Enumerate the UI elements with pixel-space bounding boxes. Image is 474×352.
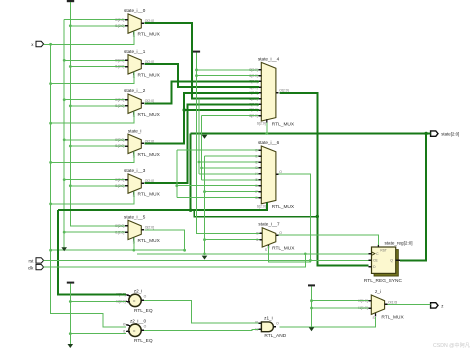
wire z2_i__0 out to AND I1 [144,329,259,330]
wire I1 feed vertical x=70.3 [69,2,125,226]
wire S run state_i__1 y=83.6 [49,72,134,85]
mux state_i__6 (RTL_MUX wide) [255,140,295,210]
svg-text:x: x [31,42,34,47]
wire state_i out bus [144,93,259,144]
svg-text:state_i__3: state_i__3 [124,168,146,173]
register state_reg[2:0] (RTL_REG_SYNC) [364,241,413,284]
wire state_i__6 I6 row [177,185,259,187]
svg-text:state_i__2: state_i__2 [124,88,146,93]
wire I0 feed row3 [64,99,125,101]
wire state_i__7 out to RST [279,235,379,245]
wire state_i__6 I5 feed [199,173,259,175]
svg-text:RTL_EQ: RTL_EQ [134,338,153,344]
ground bar (const for state_i__4) [193,51,200,53]
wire state_i__4 S stub to state bus [265,123,268,135]
wire z_i I0 feed [312,300,369,302]
svg-text:I1: I1 [123,329,126,333]
svg-text:O: O [144,324,147,328]
svg-text:z_i: z_i [375,289,381,294]
wire z_i I1 feed [312,307,369,309]
wire state_i__6 I0/I8 feed x=176.8 [175,150,178,197]
mux state_i__1 (RTL_MUX) [115,49,161,79]
svg-text:state_i__7: state_i__7 [258,222,280,227]
wire state_i__6 I1/I7 feed x=204.5 [203,156,259,255]
svg-text:O: O [279,170,282,174]
svg-text:RTL_MUX: RTL_MUX [138,112,161,118]
wire state_i__6 I8 row [177,197,259,199]
wire rst to CE [44,259,369,261]
svg-text:state_reg[2:0]: state_reg[2:0] [384,241,412,246]
wire AND out to z_i S [279,317,375,327]
svg-text:Q: Q [390,259,393,263]
wire jog run y=216.5 [194,210,319,218]
wire I1 feed row3 [70,105,125,107]
output port state[2:0] [431,131,460,137]
svg-text:RTL_MUX: RTL_MUX [381,314,404,320]
wire z2_i__0 I1 feed [70,333,126,335]
wire state_i__4 I0 feed [197,69,259,71]
wire state_i__4 I8 feed x=201.5 [202,115,259,117]
wire I1 feed row4 [70,145,125,147]
svg-text:CSDN @中阿凡: CSDN @中阿凡 [433,341,471,349]
svg-text:z1_i: z1_i [264,316,272,321]
wire I0 feed vertical x=64.2 [63,20,66,248]
svg-text:S[2:0]: S[2:0] [257,204,266,208]
svg-text:S[2:0]: S[2:0] [257,122,266,126]
mux state_i__0 (RTL_MUX) [115,8,161,38]
svg-text:I0: I0 [123,323,126,327]
wire z_i out to z port [387,303,430,305]
wire state_i__4 out to reg D [280,93,369,266]
wire state bus vertical to Q [400,134,426,261]
wire state_i__4 I1 feed [195,74,258,77]
wire x net vertical x=50.6 [51,44,127,327]
wire S run state_i__3 y=203.9 [49,191,134,205]
const bar for z_i [308,284,315,286]
net arrow below state bus [202,135,208,139]
svg-text:O: O [276,322,279,326]
wire I0 feed row1 [64,19,125,21]
svg-text:rst: rst [29,259,35,264]
wire state bus main run [191,133,427,135]
wire state bus to port stub [424,132,430,135]
svg-text:RTL_AND: RTL_AND [264,333,286,339]
wire I0 feed row2 [64,59,125,61]
svg-text:O: O [279,231,282,235]
svg-text:O: O [144,294,147,298]
power bar (top const) [67,0,74,2]
mux state_i__2 (RTL_MUX) [115,88,161,118]
wire I1 feed row5 [70,185,125,187]
mux state_i__7 (RTL_MUX) [256,222,295,252]
svg-text:S: S [265,248,268,252]
wire clk to C [44,253,369,268]
mux z_i (RTL_MUX) [358,289,404,320]
wire I0 feed row5 [64,179,125,181]
svg-text:CE: CE [373,259,378,263]
wire state_i__6 I0 row [177,149,259,151]
svg-text:RTL_MUX: RTL_MUX [138,238,161,244]
svg-text:RTL_MUX: RTL_MUX [138,32,161,38]
svg-text:O[1:0]: O[1:0] [388,300,397,304]
mux state_i (RTL_MUX) [115,128,161,158]
svg-text:RST: RST [380,249,386,253]
wire state bus S run y=210.2 [58,134,267,212]
svg-text:state_i__5: state_i__5 [124,214,146,219]
svg-text:state_i__4: state_i__4 [258,56,280,61]
output port z [431,303,444,309]
svg-text:O[2:0]: O[2:0] [145,225,154,229]
mux state_i__5 (RTL_MUX) [115,214,161,244]
wire z2_i out to AND I0 [144,300,259,323]
wire state_i__2 out bus [144,81,259,103]
svg-text:RTL_MUX: RTL_MUX [138,72,161,78]
svg-text:RTL_MUX: RTL_MUX [272,121,295,127]
mux state_i__4 (RTL_MUX wide) [249,56,295,127]
svg-text:RTL_EQ: RTL_EQ [134,308,153,314]
wire state_i__3 out bus [144,104,259,183]
svg-text:RTL_REG_SYNC: RTL_REG_SYNC [364,278,403,284]
wire state_i__5 out to S-run [144,230,186,252]
wire state_i__1 out bus [144,64,259,87]
input port rst [29,258,44,264]
input port x [31,41,43,47]
wire state_i__5 S drop [133,237,135,250]
svg-text:clk: clk [28,265,34,270]
wire x port to state_i__0 S run y=44.3 [44,31,135,46]
net arrow end x=204.5 [202,256,208,260]
svg-text:z2_i: z2_i [134,289,142,294]
wire vert x=199 [198,99,259,174]
wire S run state_i y=162.4 [49,151,134,164]
mux state_i__3 (RTL_MUX) [115,168,161,198]
svg-text:state_i: state_i [128,128,142,133]
wire S run state_i__5 y=250.2 [49,249,184,252]
comparator z2_i (RTL_EQ) [116,289,153,314]
wire state_i__6 out [269,174,312,262]
wire state_i__6 I1 row [205,155,259,157]
wire I1 feed row2 [70,66,125,68]
svg-text:=: = [133,298,136,303]
wire I1 feed state_i__5 [64,231,125,233]
svg-text:RTL_MUX: RTL_MUX [272,204,295,210]
wire const stem x=311.5 [310,286,313,327]
svg-text:z2_i__0: z2_i__0 [130,319,147,324]
wire I0 feed row4 [64,139,125,141]
wire state_i__6 I7 row [203,190,258,193]
wire state_i__0 out bus [144,23,259,98]
net arrow end x=64.2 [61,247,67,251]
comparator z2_i__0 (RTL_EQ) [123,319,153,344]
wire S run state_i__2 y=123.2 [49,111,134,125]
and-gate z1_i (RTL_AND) [255,316,287,339]
wire state_i__6 I6 feed [202,179,259,181]
wire const vertical x=196.5 [195,53,259,234]
svg-text:z: z [441,303,443,308]
svg-text:state_i__1: state_i__1 [124,49,146,54]
wire z2_i I1 feed [70,301,126,303]
wire const stem x=70.3 lower [69,284,72,344]
svg-text:RTL_MUX: RTL_MUX [138,152,161,158]
svg-text:=: = [133,328,136,333]
const bar for z2_i [67,282,74,284]
input port clk [28,264,44,270]
svg-text:state[2:0]: state[2:0] [441,132,459,137]
svg-text:state_i__0: state_i__0 [124,8,146,13]
net arrow end x=70.3 [68,344,74,348]
wire state bus left vertical x=57.8 [58,210,126,294]
wire state tap to I7 of state_i__4 [183,108,260,111]
wire vert x=201.5 [200,116,258,180]
svg-text:RTL_MUX: RTL_MUX [138,192,161,198]
svg-text:RTL_MUX: RTL_MUX [272,246,295,252]
svg-text:state_i__6: state_i__6 [258,140,280,145]
net arrow end x=311.5 [309,327,315,331]
wire I1 feed row1 [70,25,125,27]
